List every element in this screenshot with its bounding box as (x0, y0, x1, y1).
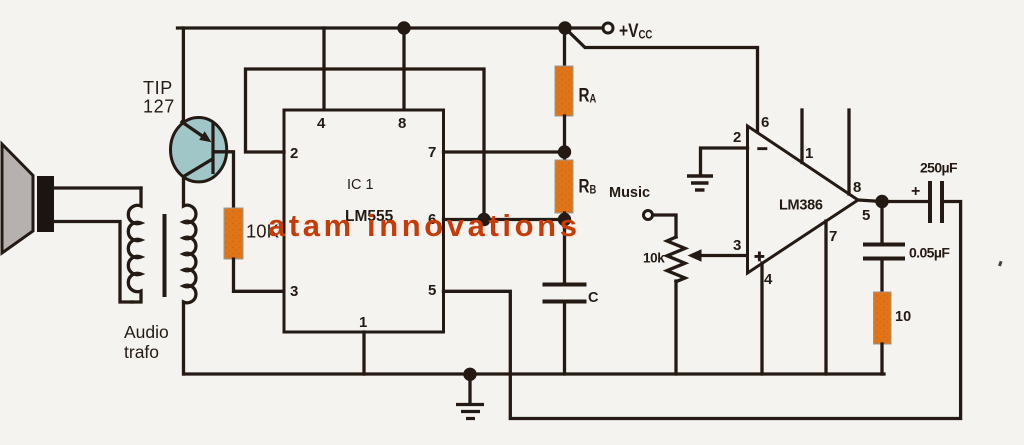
junction dot pin2-pin6 tie (477, 213, 490, 226)
svg-text:0.05µF: 0.05µF (909, 245, 950, 261)
wire LM386 output (858, 200, 928, 202)
junction dot ground (463, 368, 476, 381)
svg-text:1: 1 (359, 314, 367, 331)
ground symbol GND2 (687, 174, 713, 177)
wire pin 6 to RB bottom (444, 218, 565, 221)
terminal Music input (644, 211, 653, 220)
transformer T1 primary winding (128, 188, 141, 302)
svg-text:10k: 10k (643, 251, 665, 266)
wire R1 to IC pin 3 (234, 259, 285, 291)
wire LM386 pin2 to ground (701, 148, 748, 175)
wire R2 to ground bus (880, 344, 883, 374)
ground symbol GND1 (468, 374, 471, 403)
svg-text:8: 8 (853, 179, 861, 196)
wire C3 to R2 (880, 259, 883, 293)
svg-text:3: 3 (733, 237, 741, 254)
terminal +Vcc (603, 23, 613, 33)
svg-text:+: + (911, 183, 920, 200)
transistor Q1 collector line (184, 159, 213, 177)
resistor R2 10 ohm (874, 292, 892, 344)
wire pin 7 stub (824, 221, 827, 374)
svg-text:5: 5 (862, 207, 870, 224)
svg-text:4: 4 (764, 271, 773, 288)
svg-text:C: C (588, 290, 599, 306)
wire pin 1 drop (362, 332, 365, 374)
wire RA to RB (563, 116, 566, 160)
transformer T1 secondary winding (184, 177, 196, 374)
wire Vcc to LM386 pin 6 (565, 28, 758, 134)
capacitor C3 0.05uF plates (863, 243, 905, 247)
svg-text:5: 5 (428, 282, 436, 299)
wire pin 1 stub (800, 110, 803, 163)
wire pin 5 long feedback run (444, 202, 961, 419)
svg-text:2: 2 (733, 129, 741, 146)
speaker LS1 cone (2, 144, 33, 253)
wire pin 7 to RA/RB junction (444, 150, 565, 153)
svg-text:4: 4 (317, 115, 326, 132)
op-amp U2 LM386 triangle (748, 126, 859, 273)
resistor R1 10K (224, 208, 243, 259)
transformer core (163, 214, 167, 297)
svg-text:7: 7 (428, 144, 436, 161)
wire bottom ground bus (184, 372, 884, 375)
junction dot pin8/bus (397, 21, 410, 34)
wire top Vcc bus (178, 26, 603, 29)
potentiometer wiper arrow to LM386 pin3 (697, 254, 748, 257)
wire Q1 collector top lead (182, 28, 185, 123)
potentiometer VR1 10k zigzag (667, 237, 685, 282)
wire music to pot (653, 215, 676, 237)
wire pin 8 riser (402, 28, 405, 109)
svg-text:127: 127 (143, 97, 175, 117)
transistor Q1 TIP127 body (171, 118, 227, 182)
svg-text:1: 1 (805, 145, 813, 162)
svg-text:3: 3 (290, 283, 298, 300)
wire speaker bottom lead (54, 222, 132, 303)
wire speaker top lead (54, 186, 141, 189)
wire Vcc to RA (563, 28, 566, 66)
svg-text:10: 10 (895, 309, 911, 325)
capacitor C plates (543, 283, 587, 287)
IC U1 LM555 box (284, 110, 444, 332)
svg-text:atam innovations: atam innovations (268, 208, 581, 243)
junction dot Vcc branch (558, 21, 571, 34)
wire pin 8 stub (847, 110, 850, 194)
svg-text:LM386: LM386 (779, 198, 823, 214)
wire C to ground bus (563, 302, 566, 375)
capacitor C2 250uF plates (928, 181, 932, 223)
svg-text:trafo: trafo (124, 342, 159, 362)
wire RB to C (563, 213, 566, 284)
wire output dot down to C3 (880, 202, 883, 245)
svg-text:250µF: 250µF (920, 160, 958, 176)
svg-text:TIP: TIP (143, 78, 173, 98)
transistor Q1 emitter with arrow (182, 122, 204, 137)
svg-text:6: 6 (761, 114, 769, 131)
svg-text:IC 1: IC 1 (347, 177, 374, 193)
transistor Q1 base bar (211, 122, 214, 174)
junction dot RA-RB (558, 145, 571, 158)
speaker LS1 magnet (37, 176, 54, 232)
resistor RA (555, 66, 573, 116)
wire pin 2 net to pin 6 (246, 69, 485, 220)
op-amp plus input sign (755, 252, 765, 262)
wire pin 4 stub (760, 263, 763, 374)
resistor RB (555, 160, 573, 213)
svg-text:7: 7 (829, 228, 837, 245)
wire Q1 base lead (214, 152, 234, 208)
svg-text:2: 2 (290, 145, 298, 162)
wire pot to ground bus (674, 281, 677, 374)
svg-text:Audio: Audio (124, 322, 169, 342)
junction dot RB bottom (558, 213, 571, 226)
svg-text:Music: Music (609, 185, 650, 201)
wire pin 4 riser (322, 28, 325, 109)
artifact mark (998, 261, 1003, 267)
op-amp minus input sign (757, 147, 767, 150)
junction dot output (875, 195, 888, 208)
svg-text:8: 8 (398, 115, 406, 132)
